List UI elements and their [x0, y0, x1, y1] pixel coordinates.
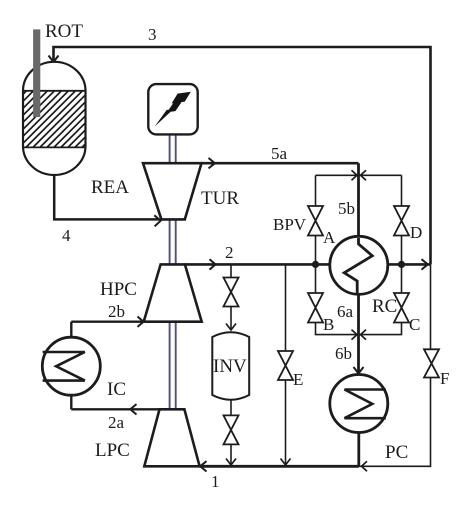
svg-text:HPC: HPC: [100, 279, 137, 300]
turbine TUR: [143, 163, 202, 219]
arrow into LPC inlet: [200, 461, 206, 471]
wire node 3 top line from recuperator outlet to reactor: [54, 47, 431, 264]
valve C: [394, 293, 409, 323]
bypass E branch: wire from node 2 down: [285, 264, 287, 351]
svg-text:TUR: TUR: [201, 188, 239, 209]
valve B: [308, 293, 323, 323]
inventory branch: wire from node 2 to upper valve: [230, 264, 232, 277]
wire 4 reactor outlet to turbine inlet: [54, 175, 159, 219]
arrow on 5a: [209, 158, 216, 168]
arrow into reactor top: [49, 56, 59, 63]
precooler PC circle: [330, 375, 388, 433]
svg-text:INV: INV: [213, 356, 247, 377]
wire INV tank to lower valve: [230, 400, 232, 415]
junction dot at node 2 line: [312, 261, 319, 268]
arrow into right riser: [422, 259, 428, 269]
right riser with valve F down to bottom line: [430, 264, 432, 349]
compressor LPC: [144, 409, 199, 466]
valve D: [394, 206, 409, 236]
junction dot on recuperator outlet: [398, 261, 405, 268]
svg-text:F: F: [440, 369, 449, 388]
svg-text:3: 3: [148, 25, 157, 44]
svg-text:PC: PC: [385, 442, 408, 463]
arrow on node 2 wire: [210, 259, 216, 269]
svg-text:LPC: LPC: [95, 440, 130, 461]
wire recuperator outlet to right riser: [388, 263, 431, 266]
valve E: [278, 351, 293, 380]
upper inventory valve: [224, 278, 239, 307]
arrow into bottom line: [226, 459, 236, 466]
wire to valve C: [401, 264, 403, 293]
arrow into bottom line: [281, 459, 291, 466]
svg-text:2b: 2b: [108, 302, 125, 321]
control rod ROT: [33, 29, 40, 117]
svg-text:1: 1: [211, 472, 220, 491]
lower inventory valve: [224, 415, 239, 444]
svg-text:5a: 5a: [271, 144, 288, 163]
wire valve A to node 2 line: [315, 236, 317, 265]
svg-text:6b: 6b: [335, 344, 352, 363]
svg-text:5b: 5b: [338, 199, 355, 218]
converging arrow left at 6 junction: [352, 330, 358, 340]
svg-text:C: C: [409, 315, 420, 334]
svg-text:REA: REA: [91, 177, 129, 198]
arrow toward PC junction on bottom: [362, 461, 368, 471]
svg-text:4: 4: [62, 226, 71, 245]
valve F: [424, 349, 439, 377]
svg-text:BPV: BPV: [273, 215, 307, 234]
arrow into INV tank: [226, 324, 236, 331]
wire 2b intercooler to HPC: [71, 321, 142, 323]
junction line to bypass valves A and D: [316, 174, 402, 176]
wire from junction to valve D: [401, 175, 403, 206]
svg-text:D: D: [410, 223, 422, 242]
shaft (generator to LPC, drawn under components): [170, 134, 176, 409]
wire 6a recuperator to PC with 6 junction: [357, 294, 360, 374]
wire node2 to valve B: [315, 264, 317, 293]
wire valve E to bottom line: [285, 380, 287, 465]
svg-text:A: A: [323, 228, 336, 247]
svg-text:IC: IC: [107, 379, 126, 400]
svg-text:B: B: [323, 315, 334, 334]
converging arrows at 5b junction: [352, 170, 358, 180]
wire 5a turbine outlet: [202, 162, 359, 165]
wire lower valve to bottom line: [230, 444, 232, 464]
generator: [148, 84, 197, 134]
converging arrow right at 6 junction: [361, 330, 367, 340]
wire 5b down to recuperator: [357, 163, 360, 236]
arrow into HPC: [138, 317, 144, 327]
wire valve F to bottom line: [359, 378, 431, 467]
wire valve to INV tank: [230, 307, 232, 330]
svg-text:RC: RC: [372, 296, 397, 317]
svg-text:6a: 6a: [337, 302, 354, 321]
lightning bolt: [155, 92, 191, 127]
wire PC outlet down: [357, 433, 360, 467]
compressor HPC: [144, 264, 202, 321]
arrow into precooler: [354, 367, 364, 374]
wire node 1 bottom line to LPC: [200, 465, 359, 468]
wire from junction to valve A: [315, 175, 317, 206]
wire 2a LPC outlet to intercooler: [71, 408, 159, 410]
arrow toward IC: [130, 404, 136, 414]
intercooler IC circle: [42, 322, 100, 410]
svg-text:2: 2: [225, 243, 234, 262]
wire valve D to recuperator outlet line: [401, 236, 403, 265]
svg-text:ROT: ROT: [45, 21, 83, 42]
svg-text:2a: 2a: [108, 413, 125, 432]
wire valve B to 6 junction: [316, 323, 359, 335]
arrow into turbine inlet: [154, 215, 160, 226]
INV tank: [212, 332, 249, 400]
wire valve C to 6 junction: [359, 323, 402, 335]
recuperator RC circle: [330, 236, 388, 294]
svg-text:E: E: [293, 370, 303, 389]
valve A (BPV): [308, 206, 323, 236]
reactor vessel REA: [0, 62, 139, 175]
wire node 2 HPC outlet to recuperator: [185, 263, 330, 266]
